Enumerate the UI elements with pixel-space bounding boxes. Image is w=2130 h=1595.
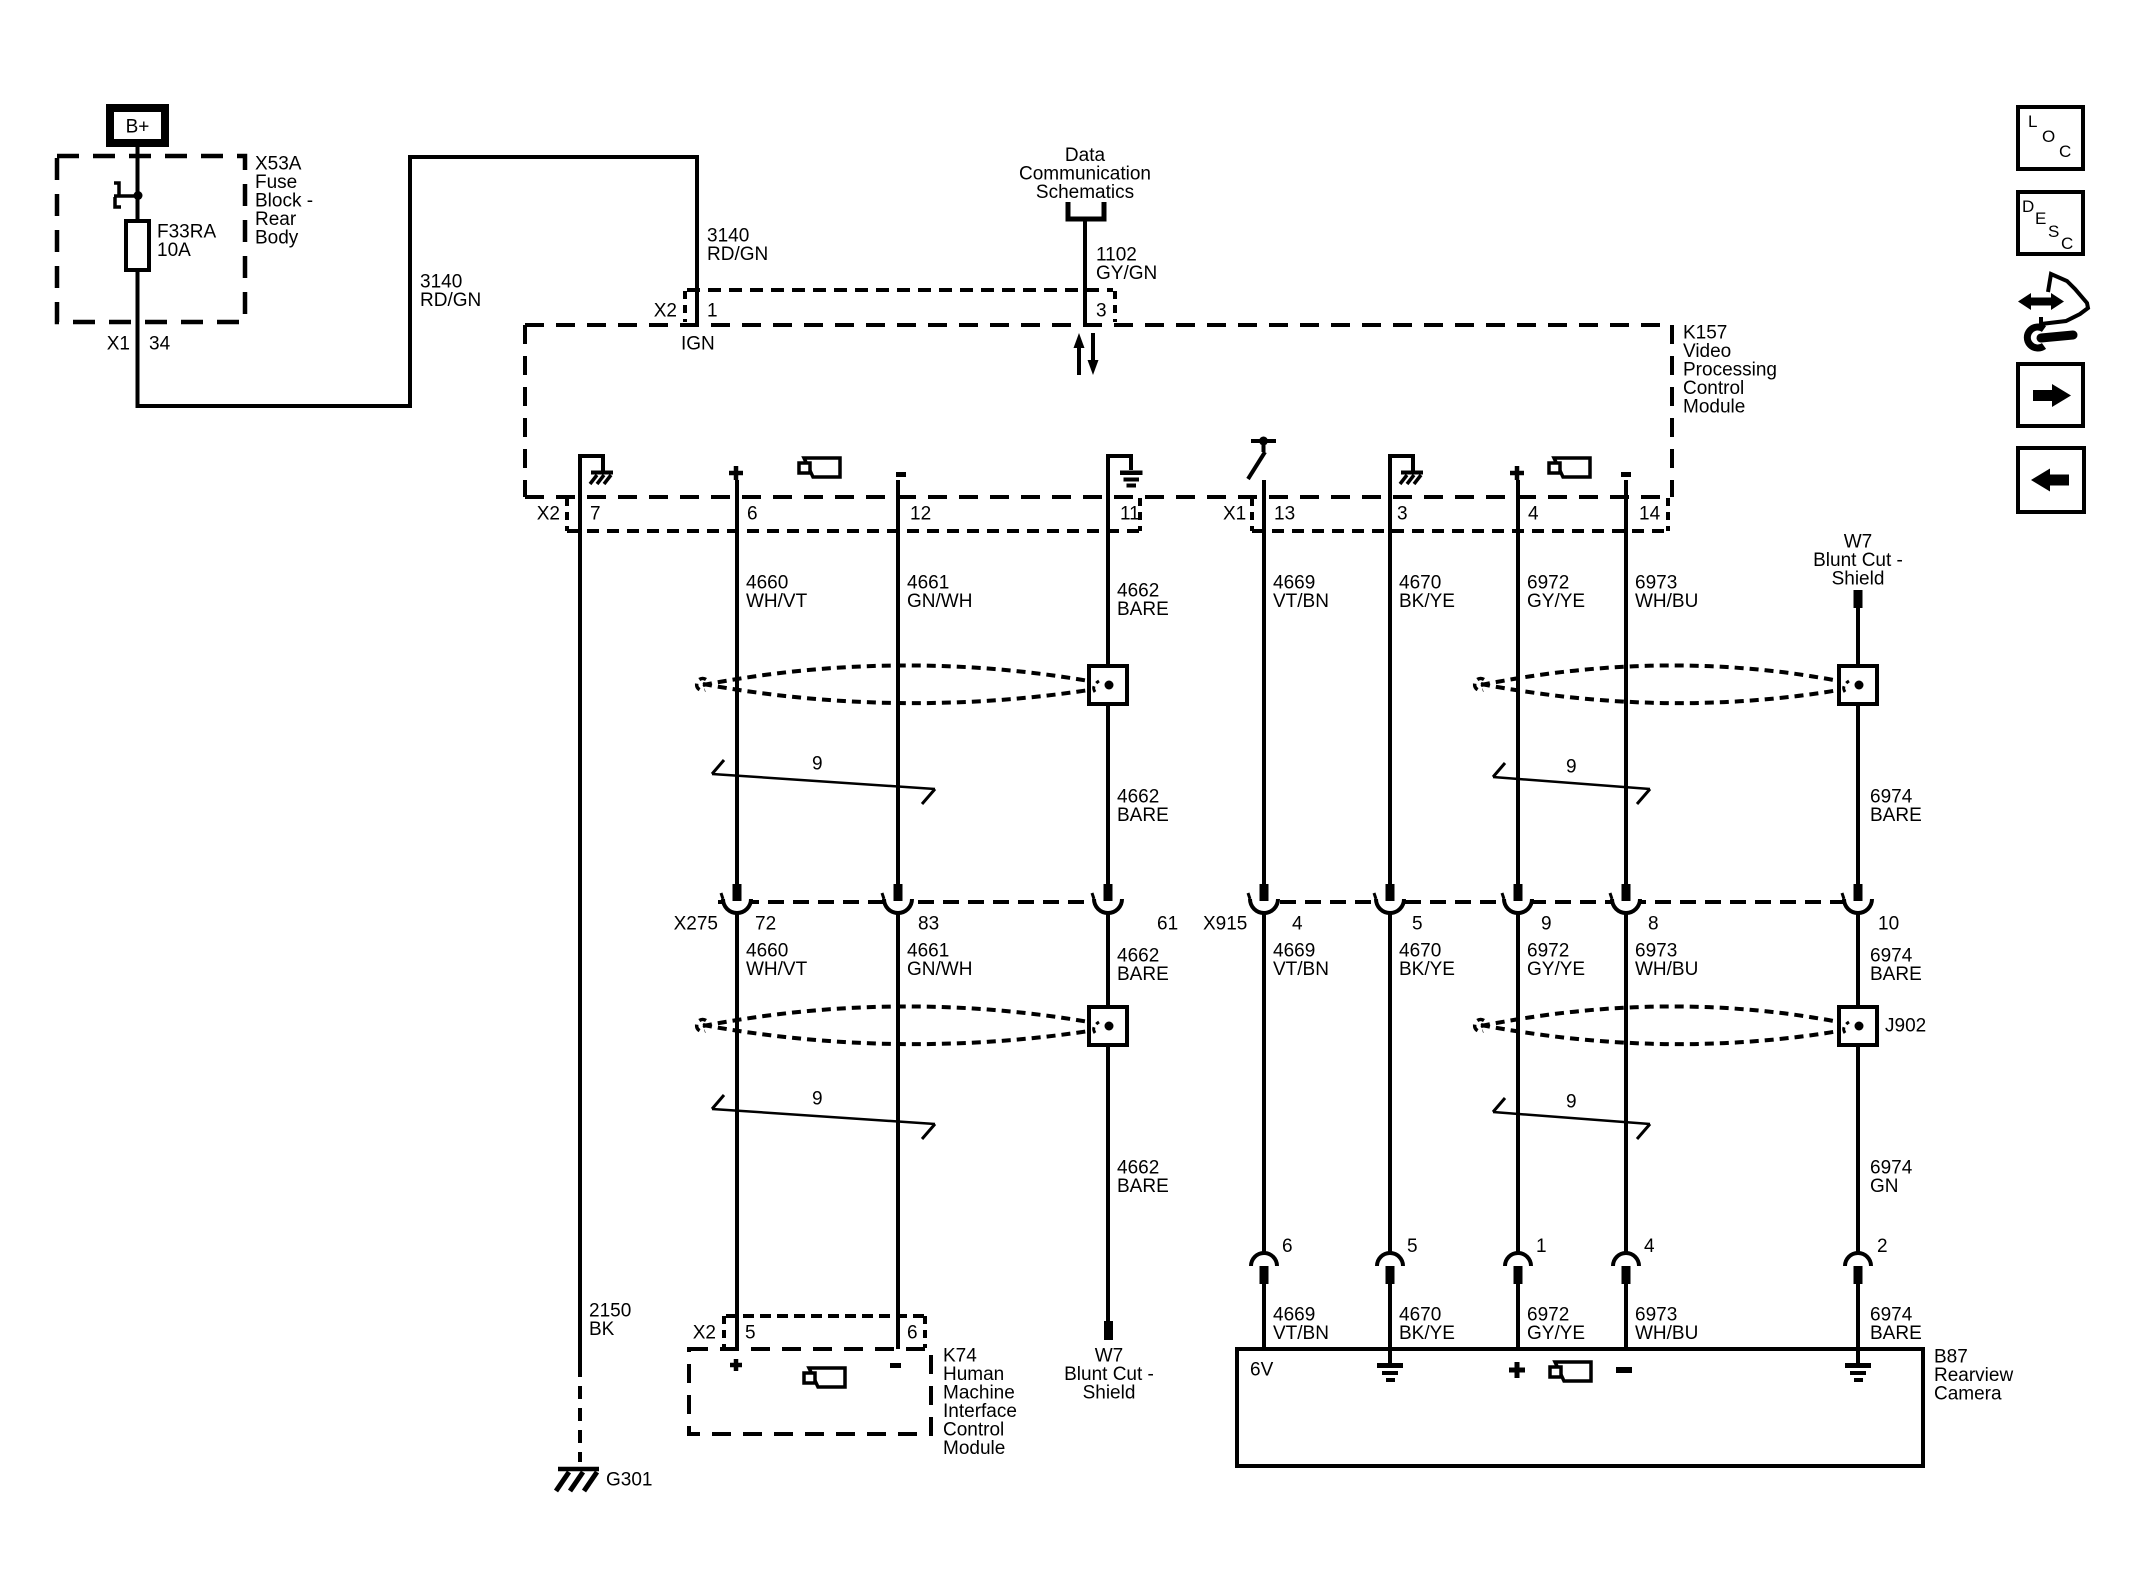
svg-text:12: 12 [910,504,931,525]
svg-text:VT/BN: VT/BN [1273,591,1329,612]
wire 6973 WH/BU lower [1624,914,1628,1252]
twisted pair ellipse upper left [697,665,1089,703]
pin 3 internal hooked chassis ground [1390,456,1423,497]
camera icon inside B87 [1550,1362,1591,1381]
svg-text:9: 9 [812,1089,823,1110]
diagnostic car and wrench icon [2018,274,2088,348]
svg-text:GN/WH: GN/WH [907,959,972,980]
pin 14 minus symbol [1621,472,1631,477]
wire 4661 GN/WH lower [896,914,900,1349]
svg-text:5: 5 [745,1323,756,1344]
svg-text:9: 9 [1566,757,1577,778]
svg-text:83: 83 [918,914,939,935]
svg-text:G301: G301 [606,1470,652,1491]
svg-text:1: 1 [707,301,718,322]
B87 pigtail connector pin 6 [1251,1253,1277,1284]
svg-text:Shield: Shield [1083,1383,1136,1404]
svg-text:WH/VT: WH/VT [746,591,808,612]
wire 4660 WH/VT lower [735,914,739,1349]
K157 module dashed boundary [525,325,1672,497]
label 4661 GN/WH [907,573,972,613]
bussed supply tap symbol with junction dot [114,183,143,207]
svg-text:RD/GN: RD/GN [420,290,481,311]
B87 plus symbol [1509,1362,1525,1378]
label 4661 GN/WH second [907,941,972,981]
svg-text:VT/BN: VT/BN [1273,1323,1329,1344]
label 6973 WH/BU bottom [1635,1305,1698,1345]
twisted pair ellipse lower right [1475,1006,1839,1044]
svg-text:X275: X275 [674,914,718,935]
svg-text:L: L [2028,112,2037,131]
svg-text:BARE: BARE [1117,805,1169,826]
B87 minus symbol [1616,1367,1632,1373]
label 6973 WH/BU [1635,573,1698,613]
svg-text:3: 3 [1096,301,1107,322]
svg-text:IGN: IGN [681,334,715,355]
label 4669 VT/BN bottom [1273,1305,1329,1345]
connector X915 pin 9 terminal pair [1502,884,1532,913]
label 4662 BARE third [1117,946,1169,986]
connector X2 top bracket of K157 [654,290,1115,322]
svg-text:Body: Body [255,228,299,249]
label 4670 BK/YE bottom [1399,1305,1455,1345]
svg-text:13: 13 [1274,504,1295,525]
connector X1 bottom bracket of K157 [1223,498,1668,531]
label 6974 BARE second [1870,946,1922,986]
connector X2 bracket of K74 [693,1316,925,1348]
wire 6974 BARE upper [1856,608,1860,884]
svg-text:6V: 6V [1250,1360,1274,1381]
label 4662 BARE [1117,581,1169,621]
wire count 9 lower left [712,1089,935,1140]
svg-text:X1: X1 [107,334,130,355]
off-page reference Data Communication Schematics [1019,145,1151,219]
shield termination box upper left [1089,666,1127,704]
label 4662 BARE mid [1117,787,1169,827]
wire 4670 BK/YE lower [1388,914,1392,1252]
svg-text:WH/BU: WH/BU [1635,1323,1698,1344]
svg-text:X1: X1 [1223,504,1246,525]
module K74 dashed box [689,1349,931,1434]
svg-text:14: 14 [1639,504,1661,525]
twisted pair ellipse upper right [1475,665,1839,703]
label 6972 GY/YE bottom [1527,1305,1585,1345]
blunt cut W7 shield top [1813,532,1903,609]
svg-text:BARE: BARE [1870,1323,1922,1344]
module K157 label [1683,323,1777,418]
connector X275 pin 61 terminal pair [1092,884,1122,913]
pin 13 internal switch-blade symbol [1248,437,1276,498]
camera icon inside K74 [804,1368,845,1387]
svg-text:5: 5 [1412,914,1423,935]
fuse F33RA 10A [126,221,216,270]
svg-text:4: 4 [1644,1236,1655,1257]
wire 4670 BK/YE upper [1388,497,1392,884]
svg-text:C: C [2061,234,2073,253]
svg-text:72: 72 [755,914,776,935]
svg-text:6: 6 [747,504,758,525]
svg-text:RD/GN: RD/GN [707,244,768,265]
svg-text:D: D [2022,197,2034,216]
wire 6972 GY/YE lower [1516,914,1520,1252]
svg-text:BARE: BARE [1117,964,1169,985]
svg-text:6: 6 [1282,1236,1293,1257]
ground G301 [556,1469,652,1491]
label 6972 GY/YE [1527,573,1585,613]
label 1102 GY/GN [1096,245,1157,285]
svg-text:J902: J902 [1885,1016,1926,1037]
svg-text:Module: Module [943,1438,1005,1459]
svg-text:6: 6 [907,1323,918,1344]
label 6973 WH/BU second [1635,941,1698,981]
svg-text:BK: BK [589,1319,615,1340]
pin 4 plus symbol [1510,466,1524,480]
K74 minus symbol [890,1363,901,1368]
svg-text:X2: X2 [654,301,677,322]
connector X915 pin 8 terminal pair [1610,884,1640,913]
serial data bidirectional arrows [1074,333,1099,375]
svg-text:Shield: Shield [1832,569,1885,590]
battery feed B+ terminal [110,108,165,143]
svg-text:2: 2 [1877,1236,1888,1257]
label 4660 WH/VT [746,573,808,613]
B87 internal signal ground pin 5 [1377,1349,1403,1382]
svg-text:4: 4 [1528,504,1539,525]
svg-text:Schematics: Schematics [1036,182,1134,203]
svg-text:61: 61 [1157,914,1178,935]
svg-text:10A: 10A [157,240,191,261]
svg-text:5: 5 [1407,1236,1418,1257]
svg-text:3: 3 [1397,504,1408,525]
camera icon inside K157 X2 side [799,458,840,477]
connector X275 pin 83 terminal pair [882,884,912,913]
wire 2150 BK [578,497,582,1462]
svg-text:GY/YE: GY/YE [1527,591,1585,612]
navigation icon LOC [2018,107,2083,169]
svg-text:GN/WH: GN/WH [907,591,972,612]
svg-text:C: C [2059,142,2071,161]
connector X2 bottom bracket of K157 [537,498,1140,531]
connector X915 pin 5 terminal pair [1374,884,1404,913]
svg-text:S: S [2048,222,2059,241]
wire 6972 stub to B87 [1516,1284,1520,1349]
pin 12 minus symbol [896,472,906,477]
module B87 Rearview Camera box [1237,1349,1923,1466]
svg-text:9: 9 [812,754,823,775]
svg-text:X2: X2 [537,504,560,525]
connector X915 pin 4 terminal pair [1248,884,1278,913]
pin labels X1 34 [107,334,171,355]
label 6974 GN [1870,1158,1913,1198]
label 4669 VT/BN second [1273,941,1329,981]
shield termination box lower left [1089,1007,1127,1045]
in-line connector row X915 dashed line [1280,900,1844,904]
wire 6972 GY/YE upper [1516,480,1520,884]
svg-text:WH/BU: WH/BU [1635,959,1698,980]
B87 internal signal ground pin 2 [1845,1349,1871,1382]
svg-text:10: 10 [1878,914,1899,935]
B87 pigtail connector pin 5 [1377,1253,1403,1284]
B87 pigtail connector pin 4 [1613,1253,1639,1284]
svg-text:BARE: BARE [1870,964,1922,985]
twisted pair ellipse lower left [697,1006,1089,1044]
svg-text:8: 8 [1648,914,1659,935]
fuse block X53A dashed box [57,156,245,322]
svg-text:Module: Module [1683,397,1745,418]
svg-text:4: 4 [1292,914,1303,935]
label 6972 GY/YE second [1527,941,1585,981]
pin 6 plus symbol [729,466,743,480]
label 6974 BARE bottom [1870,1305,1922,1345]
wire 4662 BARE lower [1106,914,1110,1321]
label 4669 VT/BN [1273,573,1329,613]
svg-text:B+: B+ [126,117,150,138]
svg-text:X2: X2 [693,1323,716,1344]
wire 3140 RD/GN routing from fuse to K157 [136,155,700,408]
pin 11 internal signal ground [1108,456,1143,497]
wire 4662 BARE upper [1106,497,1110,884]
label 3140 RD/GN left [420,272,481,312]
svg-text:E: E [2035,209,2046,228]
wire 6974 BARE lower [1856,914,1860,1252]
svg-text:X915: X915 [1203,914,1247,935]
wire 1102 GY/GN [1083,219,1087,327]
wire 4669 VT/BN upper [1262,480,1266,1252]
wire 6974 stub to B87 [1856,1284,1860,1349]
svg-text:9: 9 [1566,1092,1577,1113]
svg-text:34: 34 [149,334,171,355]
module K74 label [943,1346,1017,1460]
wire 6973 WH/BU upper [1624,480,1628,884]
svg-text:BK/YE: BK/YE [1399,591,1455,612]
svg-text:7: 7 [590,504,601,525]
module B87 label [1934,1347,2013,1405]
svg-text:BK/YE: BK/YE [1399,959,1455,980]
blunt cut W7 shield bottom [1064,1321,1154,1404]
svg-text:VT/BN: VT/BN [1273,959,1329,980]
shield termination box upper right [1839,666,1877,704]
wire 4660 WH/VT upper [735,480,739,884]
wire 4661 GN/WH upper [896,480,900,884]
svg-text:WH/BU: WH/BU [1635,591,1698,612]
label X53A Fuse Block - Rear Body [255,154,313,249]
in-line connector row X275 dashed line [718,900,1108,904]
svg-text:11: 11 [1120,504,1140,525]
svg-text:BK/YE: BK/YE [1399,1323,1455,1344]
label 4670 BK/YE second [1399,941,1455,981]
navigation icon next arrow [2018,364,2083,426]
label 4670 BK/YE [1399,573,1455,613]
K74 plus symbol [730,1359,742,1371]
connector X275 pin 72 terminal pair [721,884,751,913]
label 2150 BK [589,1301,631,1341]
wire count 9 upper left [712,754,935,805]
wire 6973 stub to B87 [1624,1284,1628,1349]
label 3140 RD/GN right [707,226,768,266]
B87 pigtail connector pin 2 [1845,1253,1871,1284]
label 6974 BARE mid [1870,787,1922,827]
navigation icon back arrow [2018,448,2084,512]
svg-text:Camera: Camera [1934,1384,2002,1405]
svg-text:BARE: BARE [1870,805,1922,826]
svg-text:GY/YE: GY/YE [1527,1323,1585,1344]
svg-text:O: O [2042,127,2055,146]
svg-text:BARE: BARE [1117,1176,1169,1197]
svg-text:GY/YE: GY/YE [1527,959,1585,980]
navigation icon DESC [2018,192,2083,254]
pin 7 internal hooked chassis ground [580,456,613,497]
connector X915 pin 10 terminal pair [1842,884,1872,913]
svg-text:9: 9 [1541,914,1552,935]
B87 pigtail connector pin 1 [1505,1253,1531,1284]
wire count 9 upper right [1493,757,1650,805]
wire 4669 VT/BN lower [1262,1284,1266,1349]
svg-text:GN: GN [1870,1176,1899,1197]
svg-text:1: 1 [1536,1236,1547,1257]
wire from B+ into fuse block [136,147,140,221]
svg-text:GY/GN: GY/GN [1096,263,1157,284]
label 4662 BARE fourth [1117,1158,1169,1198]
camera icon inside K157 X1 side [1549,458,1590,477]
svg-text:BARE: BARE [1117,599,1169,620]
wire 4670 stub to B87 [1388,1284,1392,1349]
shield termination box J902 [1839,1007,1926,1045]
svg-text:WH/VT: WH/VT [746,959,808,980]
wire count 9 lower right [1493,1092,1650,1140]
label 4660 WH/VT second [746,941,808,981]
